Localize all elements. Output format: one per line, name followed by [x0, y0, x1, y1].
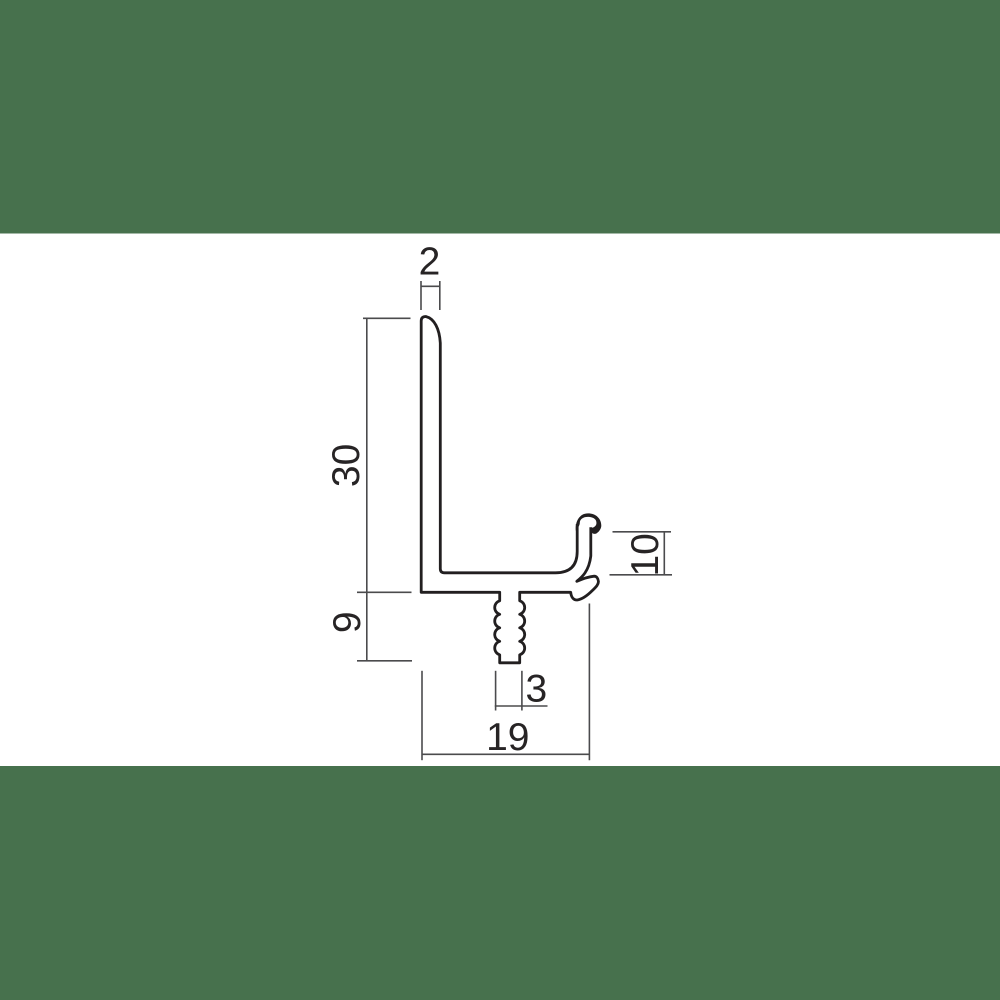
extension line bottom: [357, 660, 412, 662]
dim 10 vertical: [663, 532, 665, 575]
curl of hook (filled crescent): [576, 513, 602, 533]
extension line top: [363, 317, 411, 319]
svg-text:10: 10: [624, 533, 667, 576]
bottom green band: [0, 766, 1000, 1000]
dim 3 line: [495, 705, 548, 707]
labels: [325, 241, 667, 760]
dimension lines: [357, 281, 672, 760]
dim 19 left tick: [421, 671, 423, 760]
svg-text:3: 3: [526, 668, 548, 711]
dim 19 right tick: [588, 604, 590, 761]
dim 30/9 vertical line: [366, 318, 368, 661]
svg-text:9: 9: [326, 611, 369, 633]
dim 19 line: [422, 753, 591, 755]
extension line middle: [357, 591, 412, 593]
dim 3 left tick: [495, 671, 497, 711]
dim 2 ticks: [421, 281, 440, 310]
profile cross-section outline: [421, 317, 598, 663]
dim 3 right tick: [521, 671, 523, 711]
dim 10 bottom line: [610, 574, 673, 576]
top green band: [0, 0, 1000, 234]
svg-text:30: 30: [325, 444, 368, 487]
svg-text:19: 19: [486, 716, 529, 759]
dim 10 top line: [613, 531, 672, 533]
svg-text:2: 2: [419, 241, 441, 284]
